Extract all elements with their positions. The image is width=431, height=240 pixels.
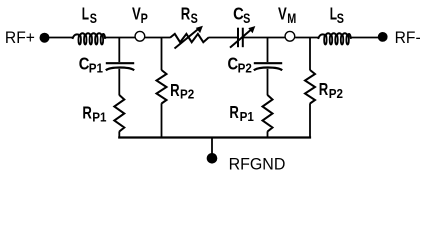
svg-text:RF-: RF- <box>395 28 421 47</box>
svg-text:P: P <box>141 11 148 26</box>
svg-text:R: R <box>319 80 328 99</box>
svg-text:R: R <box>229 103 238 122</box>
svg-text:S: S <box>337 11 344 26</box>
svg-text:P1: P1 <box>240 110 254 124</box>
svg-text:RF+: RF+ <box>5 28 35 47</box>
svg-text:P2: P2 <box>329 87 343 101</box>
svg-text:V: V <box>278 5 287 24</box>
svg-text:M: M <box>287 11 296 26</box>
svg-text:S: S <box>90 11 97 26</box>
svg-text:R: R <box>82 104 91 123</box>
svg-text:P2: P2 <box>180 87 194 101</box>
svg-text:R: R <box>181 5 190 24</box>
svg-text:P1: P1 <box>89 61 103 75</box>
svg-text:RFGND: RFGND <box>229 155 286 174</box>
svg-text:R: R <box>170 81 179 100</box>
svg-text:S: S <box>243 11 250 26</box>
svg-text:L: L <box>330 4 337 24</box>
svg-text:P1: P1 <box>92 110 106 124</box>
svg-text:P2: P2 <box>238 61 252 75</box>
svg-text:S: S <box>191 11 198 26</box>
svg-text:L: L <box>82 4 89 24</box>
